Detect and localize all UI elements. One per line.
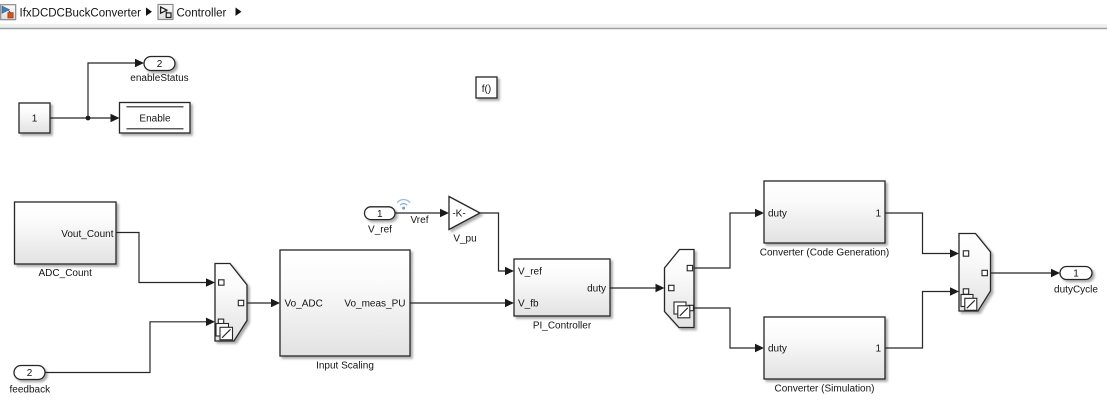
svg-text:duty: duty	[768, 209, 787, 220]
variant sink polygon	[959, 234, 991, 312]
svg-text:V_fb: V_fb	[518, 299, 539, 310]
svg-text:IfxDCDCBuckConverter: IfxDCDCBuckConverter	[20, 7, 142, 19]
variant badge 3	[961, 295, 977, 311]
svg-text:Controller: Controller	[177, 7, 227, 19]
wire constant to Enable	[50, 114, 120, 122]
wire feedback to variant source	[45, 318, 215, 373]
outport 2 enableStatus	[144, 57, 175, 71]
svg-text:ADC_Count: ADC_Count	[39, 268, 93, 279]
ADC_Count subsystem	[15, 202, 117, 264]
wireless logging badge	[397, 200, 410, 210]
svg-text:V_ref: V_ref	[368, 225, 392, 236]
svg-text:-K-: -K-	[452, 209, 465, 220]
svg-text:Converter (Simulation): Converter (Simulation)	[774, 384, 874, 395]
constant block 1	[19, 103, 50, 133]
svg-text:1: 1	[377, 209, 383, 220]
wire variant source 2 to Converter (Code Generation)	[694, 209, 764, 268]
svg-text:PI_Controller: PI_Controller	[533, 321, 592, 332]
wire variant source 2 to Converter (Simulation)	[694, 308, 764, 352]
svg-text:1: 1	[875, 209, 881, 220]
wire variant sink to dutyCycle	[991, 269, 1061, 277]
wire V_ref to gain	[395, 209, 449, 217]
wire gain to PI_Controller V_ref	[480, 213, 514, 275]
wire variant source 1 to Input Scaling	[247, 299, 280, 307]
svg-text:dutyCycle: dutyCycle	[1054, 285, 1098, 296]
svg-text:Vo_meas_PU: Vo_meas_PU	[344, 299, 405, 310]
breadcrumb arrow 2	[236, 8, 242, 16]
svg-text:Vout_Count: Vout_Count	[61, 229, 113, 240]
gain V_pu	[449, 197, 480, 230]
breadcrumb arrow 1	[146, 8, 152, 16]
breadcrumb subsystem icon Controller	[158, 5, 173, 20]
svg-text:Vref: Vref	[411, 215, 429, 226]
PI_Controller subsystem	[514, 259, 610, 316]
breadcrumb model icon IfxDCDCBuckConverter	[1, 5, 16, 20]
svg-text:2: 2	[157, 59, 163, 70]
wire junction dot	[86, 116, 91, 121]
svg-text:duty: duty	[587, 284, 606, 295]
svg-text:Input Scaling: Input Scaling	[316, 361, 374, 372]
inport 1 V_ref	[365, 207, 396, 220]
svg-text:1: 1	[1073, 269, 1079, 280]
breadcrumb bar background	[0, 0, 1107, 29]
wire Input Scaling to PI_Controller V_fb	[410, 299, 514, 307]
outport 1 dutyCycle	[1060, 267, 1092, 280]
svg-text:V_ref: V_ref	[518, 267, 542, 278]
wire PI_Controller to variant source 2	[610, 284, 665, 292]
svg-text:1: 1	[32, 114, 38, 125]
svg-text:duty: duty	[768, 344, 787, 355]
variant source 1 polygon	[215, 264, 247, 342]
svg-text:Vo_ADC: Vo_ADC	[285, 299, 323, 310]
wire ADC_Count to variant source	[116, 233, 215, 287]
wire Converter (Code Generation) to variant sink	[885, 213, 959, 258]
wire branch to enableStatus	[88, 59, 144, 118]
variant source 2 polygon	[665, 250, 695, 328]
Converter (Code Generation) subsystem	[764, 181, 885, 243]
Converter (Simulation) subsystem	[764, 317, 885, 379]
inport 2 feedback	[14, 366, 45, 380]
wire Converter (Simulation) to variant sink	[885, 287, 959, 348]
svg-text:feedback: feedback	[10, 385, 52, 396]
svg-text:Enable: Enable	[139, 114, 171, 125]
Input Scaling subsystem	[280, 250, 410, 356]
variant badge 1	[216, 324, 233, 340]
variant badge 2	[674, 302, 690, 318]
svg-text:1: 1	[875, 344, 881, 355]
svg-text:f(): f()	[482, 84, 491, 95]
svg-text:2: 2	[27, 368, 33, 379]
svg-text:Converter (Code Generation): Converter (Code Generation)	[760, 248, 890, 259]
svg-text:enableStatus: enableStatus	[130, 73, 188, 84]
Enable block	[120, 103, 191, 134]
f() trigger block	[476, 77, 497, 98]
svg-text:V_pu: V_pu	[453, 234, 476, 245]
